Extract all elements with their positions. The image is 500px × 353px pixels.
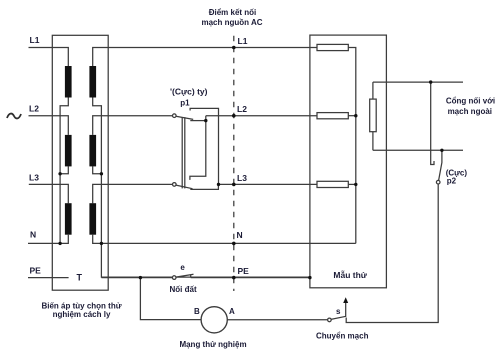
svg-text:B: B: [194, 307, 200, 316]
svg-text:Nối đất: Nối đất: [170, 285, 197, 294]
svg-text:mạch nguồn AC: mạch nguồn AC: [201, 18, 262, 27]
svg-text:nghiệm cách ly: nghiệm cách ly: [53, 310, 111, 319]
svg-text:PE: PE: [238, 266, 250, 276]
svg-text:L3: L3: [29, 173, 39, 183]
svg-text:p1: p1: [180, 98, 190, 107]
svg-text:N: N: [30, 229, 36, 239]
svg-text:Chuyển mạch: Chuyển mạch: [316, 331, 369, 340]
svg-text:PE: PE: [30, 265, 42, 275]
svg-text:Mạng thử nghiệm: Mạng thử nghiệm: [179, 340, 246, 349]
svg-text:L2: L2: [29, 103, 39, 113]
svg-text:L3: L3: [237, 173, 247, 183]
svg-text:Điểm kết nối: Điểm kết nối: [209, 8, 257, 17]
svg-text:Biến áp tùy chọn thử: Biến áp tùy chọn thử: [41, 302, 121, 311]
svg-text:p2: p2: [447, 176, 457, 185]
svg-text:e: e: [180, 263, 185, 272]
svg-text:T: T: [77, 273, 83, 283]
svg-text:Mẫu thử: Mẫu thử: [333, 270, 367, 280]
svg-text:L1: L1: [30, 35, 40, 45]
svg-text:mạch ngoài: mạch ngoài: [448, 107, 492, 116]
svg-text:Cổng nối với: Cổng nối với: [446, 97, 495, 106]
svg-text:A: A: [229, 307, 235, 316]
svg-text:s: s: [336, 307, 341, 316]
svg-text:L1: L1: [238, 36, 248, 46]
svg-text:L2: L2: [237, 104, 247, 114]
svg-text:'(Cực) ty): '(Cực) ty): [170, 86, 208, 96]
svg-text:N: N: [237, 230, 243, 240]
